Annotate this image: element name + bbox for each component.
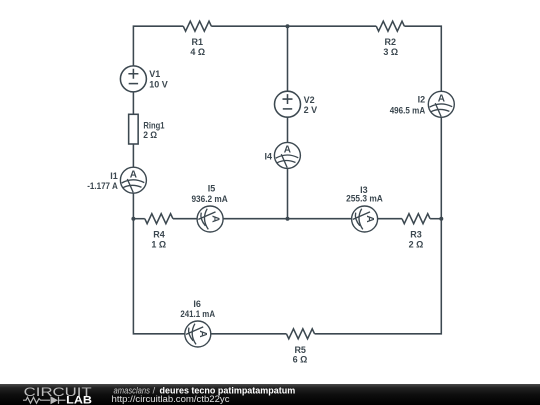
wire bottom segment 2 bbox=[211, 333, 287, 335]
svg-text:496.5 mA: 496.5 mA bbox=[390, 105, 426, 115]
svg-text:A: A bbox=[197, 330, 208, 338]
wire left vertical segment 4 with corner bbox=[133, 193, 184, 334]
svg-text:I2: I2 bbox=[418, 94, 426, 104]
svg-text:10 V: 10 V bbox=[149, 79, 168, 89]
wire middle row segment 2 bbox=[173, 218, 197, 220]
wire left vertical segment 3 bbox=[132, 144, 134, 167]
svg-text:LAB: LAB bbox=[66, 395, 92, 405]
svg-text:R5: R5 bbox=[294, 345, 306, 355]
node top-middle junction bbox=[286, 24, 290, 28]
wire middle row segment 5 bbox=[430, 218, 441, 220]
wire middle row segment 3 bbox=[223, 218, 352, 220]
wire middle vertical segment 2 bbox=[287, 117, 289, 142]
wire right vertical segment 2 with corner bbox=[315, 117, 442, 333]
svg-text:2 V: 2 V bbox=[304, 105, 318, 115]
svg-text:A: A bbox=[210, 215, 221, 223]
ammeter I3 bbox=[352, 206, 378, 232]
wire middle row segment 4 bbox=[378, 218, 402, 220]
wire left vertical segment 2 bbox=[132, 92, 134, 114]
svg-text:241.1 mA: 241.1 mA bbox=[180, 309, 215, 319]
svg-text:I4: I4 bbox=[264, 151, 272, 161]
svg-text:R4: R4 bbox=[153, 230, 165, 240]
svg-text:3 Ω: 3 Ω bbox=[383, 47, 398, 57]
svg-text:I5: I5 bbox=[208, 184, 216, 194]
ammeter I4 bbox=[274, 142, 300, 168]
svg-text:2 Ω: 2 Ω bbox=[143, 130, 157, 140]
footer bar bbox=[0, 384, 540, 405]
resistor Ring1 bbox=[129, 114, 139, 144]
ammeter I1 bbox=[120, 167, 146, 193]
wire middle vertical segment 1 bbox=[287, 26, 289, 91]
svg-text:4 Ω: 4 Ω bbox=[190, 47, 205, 57]
CircuitLab logo squiggle bbox=[23, 397, 66, 404]
svg-text:-1.177 A: -1.177 A bbox=[87, 181, 118, 191]
wire top-right horizontal with corner bbox=[404, 26, 441, 91]
resistor R5 bbox=[286, 329, 314, 339]
svg-text:2 Ω: 2 Ω bbox=[409, 240, 424, 250]
svg-text:6 Ω: 6 Ω bbox=[293, 355, 308, 365]
ammeter I2 bbox=[428, 91, 454, 117]
svg-text:R3: R3 bbox=[410, 230, 422, 240]
svg-text:A: A bbox=[364, 215, 375, 223]
node middle junction bbox=[286, 217, 290, 221]
svg-text:I6: I6 bbox=[193, 299, 201, 309]
resistor R4 bbox=[145, 214, 173, 224]
wire top-left horizontal with corner bbox=[133, 26, 183, 66]
svg-text:R2: R2 bbox=[385, 37, 397, 47]
svg-text:A: A bbox=[284, 145, 291, 156]
wire middle vertical segment 3 bbox=[287, 168, 289, 218]
svg-text:V1: V1 bbox=[149, 69, 160, 79]
ammeter I5 bbox=[197, 206, 223, 232]
node right-middle junction bbox=[439, 217, 443, 221]
ammeter I6 bbox=[185, 321, 211, 347]
svg-text:I1: I1 bbox=[110, 171, 118, 181]
svg-text:R1: R1 bbox=[192, 37, 204, 47]
voltage source V2 bbox=[275, 91, 301, 117]
svg-text:1 Ω: 1 Ω bbox=[151, 240, 166, 250]
svg-text:A: A bbox=[130, 169, 137, 180]
svg-text:A: A bbox=[438, 94, 445, 105]
svg-text:936.2 mA: 936.2 mA bbox=[191, 194, 228, 204]
node left-middle junction bbox=[131, 217, 135, 221]
wire top-middle horizontal bbox=[211, 25, 376, 27]
resistor R2 bbox=[376, 21, 404, 31]
svg-text:255.3 mA: 255.3 mA bbox=[346, 193, 383, 203]
svg-text:http://circuitlab.com/ctb22yc: http://circuitlab.com/ctb22yc bbox=[112, 394, 231, 404]
resistor R3 bbox=[402, 214, 430, 224]
voltage source V1 bbox=[120, 66, 146, 92]
resistor R1 bbox=[183, 21, 211, 31]
svg-text:V2: V2 bbox=[304, 95, 315, 105]
wire middle row segment 1 bbox=[133, 218, 144, 220]
